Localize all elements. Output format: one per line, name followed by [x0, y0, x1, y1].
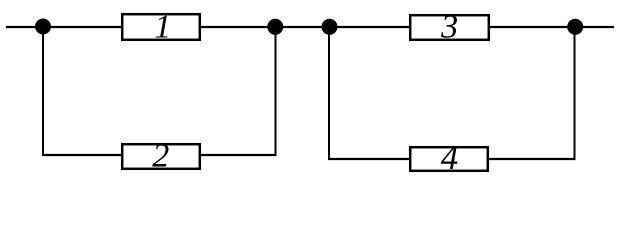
node B junction dot: [267, 19, 283, 35]
resistor 4: [410, 138, 488, 177]
wire vertical drop from node C: [328, 27, 330, 159]
wire top horizontal bus: [6, 26, 614, 28]
node C junction dot: [322, 19, 338, 35]
node A junction dot: [35, 19, 51, 35]
wire bottom-right horizontal branch: [328, 158, 576, 160]
svg-text:2: 2: [152, 138, 169, 175]
wire bottom-left horizontal branch: [42, 154, 277, 156]
svg-text:4: 4: [441, 138, 459, 177]
resistor 1: [122, 9, 200, 46]
wire vertical drop from node D: [574, 27, 576, 159]
node D junction dot: [567, 19, 583, 35]
svg-text:3: 3: [440, 9, 458, 46]
wire vertical drop from node A: [42, 27, 44, 155]
resistor 3: [410, 9, 489, 46]
svg-text:1: 1: [154, 9, 171, 46]
resistor 2: [122, 138, 200, 175]
wire vertical drop from node B: [275, 27, 277, 155]
